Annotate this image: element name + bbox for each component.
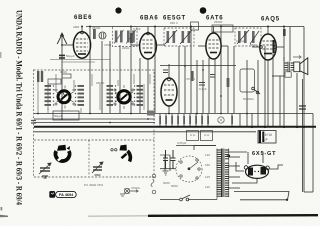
svg-text:140: 140	[205, 153, 210, 157]
svg-text:FA 4694: FA 4694	[59, 193, 74, 197]
svg-text:50μμF: 50μμF	[66, 54, 75, 58]
svg-text:6BA6: 6BA6	[140, 16, 159, 22]
svg-text:6AQ5: 6AQ5	[261, 17, 280, 23]
svg-text:125: 125	[205, 175, 210, 179]
svg-text:U.A.: U.A.	[204, 133, 210, 137]
svg-text:5000: 5000	[171, 184, 178, 188]
svg-text:6X5-GT: 6X5-GT	[252, 151, 276, 157]
svg-text:250 V: 250 V	[170, 21, 178, 25]
svg-text:560Ω: 560Ω	[250, 43, 258, 47]
svg-text:0,05μF: 0,05μF	[177, 141, 187, 145]
svg-text:U.A.: U.A.	[190, 133, 196, 137]
svg-text:μF: μF	[264, 138, 268, 142]
svg-text:16+16: 16+16	[263, 133, 272, 137]
svg-text:0,1μF: 0,1μF	[199, 87, 207, 91]
svg-text:110: 110	[205, 185, 210, 189]
svg-text:160: 160	[205, 163, 210, 167]
svg-text:5000: 5000	[163, 181, 170, 185]
svg-text:25000: 25000	[96, 81, 105, 85]
svg-text:PU 400Ω ±5%: PU 400Ω ±5%	[84, 183, 103, 187]
svg-text:6BE6: 6BE6	[74, 15, 92, 21]
svg-text:470Ω: 470Ω	[104, 43, 112, 47]
svg-text:ABΩ: ABΩ	[73, 25, 80, 29]
svg-text:UNDA RADIO - Model. Tri Unda R: UNDA RADIO - Model. Tri Unda R 69/1 - R …	[15, 10, 25, 205]
svg-text:0,05μF: 0,05μF	[236, 39, 246, 43]
svg-text:22kΩ: 22kΩ	[122, 46, 130, 50]
svg-text:3000: 3000	[60, 70, 67, 74]
svg-text:50000Ω: 50000Ω	[243, 97, 254, 101]
svg-text:50μμF: 50μμF	[54, 114, 63, 118]
svg-text:0,1μF: 0,1μF	[133, 27, 141, 31]
svg-text:4700Ω: 4700Ω	[186, 77, 196, 81]
svg-text:25000: 25000	[92, 26, 101, 30]
svg-text:470kΩ: 470kΩ	[131, 186, 141, 190]
svg-text:25000: 25000	[214, 20, 223, 24]
